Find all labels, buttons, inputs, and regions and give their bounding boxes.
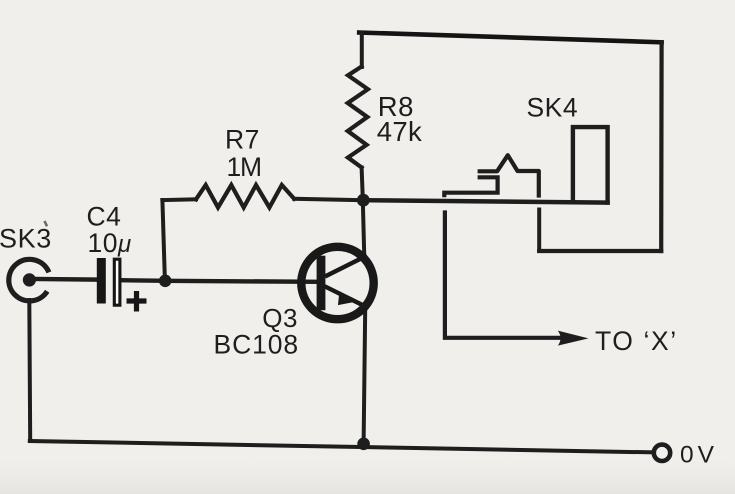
wire: SK3 down to bottom rail [27,300,32,441]
capacitor C4 positive plate (outline) [114,259,120,305]
transistor Q3 emitter arrowhead [339,293,353,305]
resistor R8 (47k) zigzag [348,67,368,168]
wire: SK4 bottom loop horizontal [539,249,661,253]
svg-text:10μ: 10μ [88,228,132,258]
C4 polarity plus sign [127,291,147,312]
wire: TO 'X' lead [445,213,561,338]
wire: right side vertical (top rail to SK4 loop) [659,42,664,251]
svg-text:TO ‘X’: TO ‘X’ [595,326,678,356]
wire: R8 bottom to collector junction [362,168,363,200]
wire: emitter vertical (transistor to bottom rail) [364,309,366,444]
transistor Q3 circle [301,247,373,319]
wire: collector vertical (junction to transistor) [363,200,364,254]
svg-text:SK3: SK3 [0,223,52,253]
svg-text:C4: C4 [87,202,122,232]
node: emitter/0V junction dot [357,438,370,451]
wire: R7 branch vertical down to base node [162,200,165,280]
wire: C4 to base node [122,278,165,283]
scan speck above SK3 [45,221,48,226]
transistor Q3 emitter stroke [325,286,369,308]
svg-text:R7: R7 [225,125,260,155]
socket SK4 body rectangle [573,127,608,205]
wire: SK4 switch lead below main wire [537,210,541,252]
wire: base node to transistor base [165,281,317,282]
wire: R7 left branch horizontal [162,197,196,202]
capacitor C4 negative plate (solid) [97,258,106,304]
transistor Q3 base bar [317,256,326,311]
wire: main horizontal from junction to SK4 [363,200,608,202]
svg-text:0V: 0V [680,442,718,469]
svg-text:1M: 1M [227,152,261,182]
wire: bottom 0V rail [30,441,654,452]
SK4 tip spring contact (hook) [444,177,497,197]
node: collector junction dot [357,194,370,207]
wire: top supply rail [359,33,661,43]
transistor Q3 collector stroke [325,256,367,277]
svg-text:47k: 47k [377,116,422,147]
arrowhead TO 'X' [558,331,589,346]
wire: top rail down to R8 [360,33,364,68]
svg-text:Q3: Q3 [262,303,298,333]
node: base junction dot [159,275,172,288]
wire: SK3 centre to C4 [33,277,97,282]
svg-text:SK4: SK4 [527,93,579,123]
SK4 break contact with actuator bump [478,155,539,197]
wire: R7 right end to collector junction [294,199,363,200]
socket SK3 (arc with gap at right) [9,259,49,301]
SK3 centre pin dot [23,273,36,286]
resistor R7 (1M) zigzag [196,185,294,208]
svg-text:BC108: BC108 [214,329,300,359]
terminal 0V circle [654,445,670,461]
